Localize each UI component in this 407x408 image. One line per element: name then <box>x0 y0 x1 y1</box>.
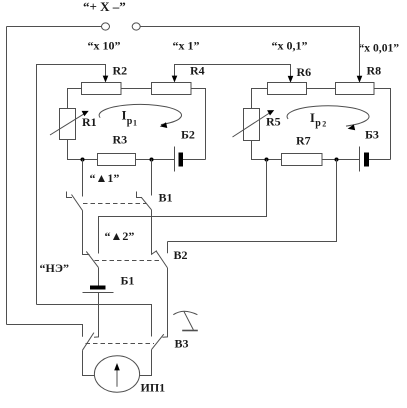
R4 tap arrowhead <box>172 76 178 83</box>
svg-text:2: 2 <box>322 120 326 129</box>
loop current arrow Ip2 <box>287 106 369 126</box>
resistor R8 <box>336 83 375 95</box>
svg-text:p: p <box>127 116 133 127</box>
wire between R2 and R4 <box>121 88 152 90</box>
galvanometer ИП1 body <box>94 356 139 392</box>
svg-text:ИП1: ИП1 <box>141 380 166 394</box>
svg-text:В3: В3 <box>175 337 189 351</box>
wire between R6 and R8 <box>307 88 336 90</box>
wire B2 left arm down to battery Б1 <box>98 268 100 286</box>
svg-text:В2: В2 <box>174 248 188 262</box>
wire B2 right arm down to B3 right feed hook <box>162 268 167 337</box>
battery Б2 long plate <box>174 147 176 172</box>
svg-text:“х 10”: “х 10” <box>88 39 121 53</box>
svg-text:I: I <box>122 108 127 123</box>
wire loop2 top left corner <box>252 89 268 109</box>
resistor R6 <box>268 83 307 95</box>
wire Б1 down to B3 left feed hook <box>94 293 99 338</box>
switch B1 left pole arm <box>72 195 83 211</box>
wire B2 to loop1 bottom-right corner <box>183 159 206 161</box>
junction dot loop1 right <box>150 158 154 162</box>
gang dashed link B2 <box>95 260 160 262</box>
wire R7 to dot to battery Б3 <box>322 159 360 161</box>
svg-text:“х 0,1”: “х 0,1” <box>272 39 308 53</box>
switch B1 left pole bracket contact <box>67 192 73 198</box>
junction dot loop2 left <box>265 158 269 162</box>
battery Б1 short plate <box>90 286 106 290</box>
svg-text:R1: R1 <box>82 115 97 129</box>
resistor R4 <box>152 83 192 95</box>
junction dot loop2 right <box>335 158 339 162</box>
wire loop2 bottom: corner to R7 <box>267 159 282 161</box>
svg-text:p: p <box>315 118 321 129</box>
svg-text:“+ Х –”: “+ Х –” <box>83 0 126 14</box>
wire x1 tap: link from R4 arrow to R6 arrow <box>175 65 291 78</box>
svg-text:“▲1”: “▲1” <box>90 171 120 185</box>
switch B3 left pole arm <box>83 333 94 351</box>
wire x0,01 feed: vertical from terminal wire to R8 arrow <box>359 27 361 78</box>
switch B1 left pole: feed wire from dot1 <box>82 160 84 197</box>
junction dot loop1 left <box>81 158 85 162</box>
battery Б1 long plate <box>83 292 114 294</box>
terminal circle 1 <box>102 23 110 30</box>
svg-text:Б1: Б1 <box>121 274 135 288</box>
switch B2 right pole arm <box>156 251 168 268</box>
wire loop1 top: corner to R2 <box>68 89 82 109</box>
R2 tap arrowhead <box>103 76 109 83</box>
battery Б3 short plate <box>364 153 369 167</box>
switch B3 right pole arm <box>152 334 164 349</box>
rheostat R5 <box>244 109 260 141</box>
battery Б3 long plate <box>359 147 361 172</box>
wire loop1 bottom: dot1 to R3 <box>83 159 98 161</box>
svg-text:Б3: Б3 <box>365 127 379 141</box>
loop current arrow Ip1 <box>99 104 181 124</box>
R1 adjust arrow <box>50 113 86 135</box>
gang dashed link B3 <box>86 343 155 345</box>
switch B1 right pole bracket contact <box>137 192 143 198</box>
wire top-left from left rail to terminal 1 <box>7 26 102 28</box>
svg-text:R6: R6 <box>297 65 312 79</box>
wire from terminal 2 to R8 feed corner <box>140 26 359 28</box>
svg-text:Б2: Б2 <box>181 127 195 141</box>
wire R3 to dot2 to battery B2 <box>136 159 175 161</box>
wire R5 bottom to loop2 bottom-left corner <box>252 141 267 160</box>
wire x10 rail corner to B3 right fixed contact <box>37 305 152 337</box>
wire B3 left arm to meter left terminal <box>83 350 95 375</box>
wire middle rail from B2-left feed corner to loop2 dot1 <box>99 160 267 254</box>
wire left rail vertical <box>6 27 8 325</box>
wire loop1 top right corner down <box>191 89 206 160</box>
resistor R7 <box>282 154 323 166</box>
rheostat R1 <box>60 109 76 140</box>
svg-text:1: 1 <box>133 118 137 127</box>
svg-text:“х 0,01”: “х 0,01” <box>359 42 400 55</box>
wire loop2 top right corner down <box>374 89 391 160</box>
svg-text:R8: R8 <box>367 64 382 78</box>
svg-text:R2: R2 <box>113 64 128 78</box>
wire B1 left arm down to B2 left bracket <box>83 211 90 255</box>
svg-text:R3: R3 <box>113 133 128 147</box>
gang dashed link B1 <box>83 203 147 205</box>
switch B1 right pole: feed wire from dot2 <box>151 160 153 196</box>
wire B3 right arm to meter right terminal <box>140 350 152 376</box>
resistor R2 <box>82 83 122 95</box>
battery Б2 short plate <box>179 153 184 167</box>
svg-text:“х 1”: “х 1” <box>173 39 200 53</box>
svg-text:“НЭ”: “НЭ” <box>40 261 69 275</box>
galvanometer needle arrow <box>116 368 118 387</box>
switch B2 right pole bracket stub <box>167 242 169 254</box>
svg-text:В1: В1 <box>159 191 173 205</box>
svg-text:R5: R5 <box>266 114 281 128</box>
svg-text:“▲2”: “▲2” <box>105 229 135 243</box>
wire R1 bottom to loop1 bottom-left corner <box>68 140 83 160</box>
switch B2 left pole arm <box>86 251 98 267</box>
svg-text:R4: R4 <box>190 64 205 78</box>
R6 tap arrowhead <box>288 76 294 83</box>
terminal circle 2 <box>132 23 140 30</box>
R5 adjust arrow <box>233 112 272 137</box>
wire x10 tap: vertical riser and horizontal to R2 arrow <box>37 65 106 305</box>
switch B1 right pole arm <box>141 197 151 210</box>
wire Б3 to loop2 bottom-right corner <box>369 159 391 161</box>
wire B1 right arm down to B2 right contact <box>152 210 157 255</box>
R8 tap arrowhead <box>357 76 363 83</box>
wire left rail bottom corner to B3 left fixed contact <box>7 325 83 337</box>
switch B3 actuator lever icon <box>173 311 197 314</box>
resistor R3 <box>98 154 136 166</box>
wire from B2 right bracket to loop2 dot2 <box>168 160 337 242</box>
svg-text:R7: R7 <box>296 134 311 148</box>
